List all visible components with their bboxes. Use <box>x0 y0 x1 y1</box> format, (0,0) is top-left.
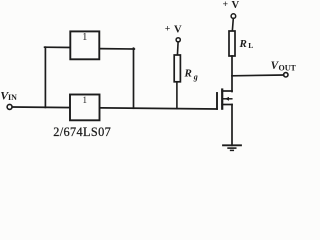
wire: main input line from VIN to gate <box>12 107 217 109</box>
wire: left feedback vertical <box>44 47 46 107</box>
svg-text:L: L <box>248 41 253 50</box>
wire: top-left to upper buffer input <box>45 46 71 48</box>
wire: right feedback vertical down to main line <box>133 48 135 108</box>
terminal: +V circle above Rg <box>176 38 180 42</box>
svg-text:V: V <box>174 24 182 35</box>
buffer U1b (lower, IEC "1" box) <box>70 95 100 121</box>
svg-text:+: + <box>223 0 229 10</box>
buffer U1a (upper, IEC "1" box) <box>70 31 99 59</box>
terminal: VIN input circle <box>7 104 12 109</box>
transistor Q1 channel top segment <box>221 90 223 95</box>
resistor Rg (box) <box>174 55 180 82</box>
wire: source down to ground <box>231 105 233 146</box>
wire: drain connection <box>222 90 232 92</box>
svg-text:1: 1 <box>82 32 87 43</box>
label: +V (above Rg) <box>165 24 182 36</box>
wire: source connection <box>222 104 232 106</box>
wire: RL bottom down to drain (through VOUT node) <box>231 56 233 92</box>
label: VOUT <box>271 60 297 73</box>
svg-text:2/674LS07: 2/674LS07 <box>53 125 111 139</box>
ground symbol <box>223 145 241 150</box>
wire: upper buffer output to right feedback corner <box>99 48 134 50</box>
terminal: VOUT circle <box>284 73 288 77</box>
svg-text:R: R <box>239 38 247 50</box>
label: RL <box>239 38 254 50</box>
transistor Q1 (n-channel MOSFET) gate bar <box>216 93 218 109</box>
label: +V (above RL) <box>223 0 240 11</box>
svg-text:V: V <box>232 0 240 11</box>
wire: Rg bottom down to main line <box>176 82 178 109</box>
svg-text:1: 1 <box>82 95 87 105</box>
resistor RL (box) <box>229 31 235 56</box>
node: VOUT junction wire to output terminal <box>232 74 284 77</box>
wire: +V terminal down to RL top <box>232 18 233 31</box>
label: Rg <box>184 68 198 82</box>
svg-text:+: + <box>165 24 171 35</box>
terminal: +V circle above RL <box>231 14 236 19</box>
wire: body connection with arrow <box>223 97 232 101</box>
svg-text:R: R <box>184 68 192 80</box>
transistor Q1 channel middle segment <box>221 97 223 101</box>
wire: +V terminal down to Rg top <box>176 42 179 56</box>
transistor Q1 channel bottom segment <box>221 103 223 109</box>
svg-text:OUT: OUT <box>279 64 297 73</box>
svg-text:g: g <box>193 72 198 81</box>
svg-text:IN: IN <box>8 93 17 102</box>
label: VIN <box>0 89 17 103</box>
label: 2/674LS07 part designation <box>53 125 111 139</box>
